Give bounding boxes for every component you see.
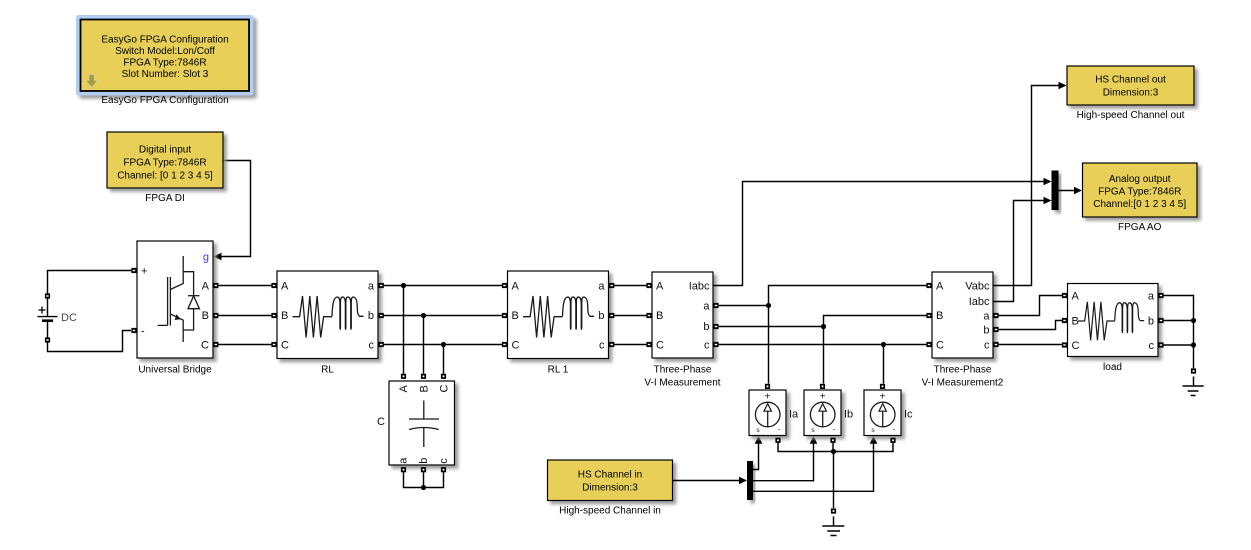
svg-text:A: A	[1072, 291, 1080, 303]
node gate arrow	[214, 253, 222, 261]
svg-text:a: a	[1148, 291, 1155, 303]
svg-text:c: c	[984, 340, 990, 352]
wire load c to ground bus	[1164, 344, 1194, 346]
svg-text:a: a	[368, 281, 375, 293]
svg-text:Slot Number: Slot 3: Slot Number: Slot 3	[122, 69, 209, 80]
svg-text:Ib: Ib	[844, 409, 853, 421]
svg-text:DC: DC	[61, 312, 77, 324]
svg-text:a: a	[703, 301, 710, 313]
svg-text:Ic: Ic	[904, 409, 913, 421]
wire meas2 Iabc to mux input2	[993, 201, 1049, 302]
svg-text:Iabc: Iabc	[689, 281, 710, 293]
node junction capacitor neutral	[421, 485, 426, 490]
wire meas1 b output	[719, 326, 824, 328]
svg-text:A: A	[202, 281, 210, 293]
wire phase b drop to Ib	[823, 327, 825, 384]
current source Ib	[804, 384, 853, 443]
wire b drop to capacitor B	[423, 316, 425, 374]
wire FPGA DI output to bridge gate	[216, 161, 251, 257]
demux bar	[747, 461, 753, 500]
svg-text:C: C	[439, 385, 451, 393]
wire load b to ground bus	[1164, 320, 1194, 322]
svg-text:Three-Phase: Three-Phase	[654, 365, 712, 376]
svg-text:a: a	[598, 281, 605, 293]
wire meas1 c to meas2 C	[719, 344, 930, 346]
wire load outputs to ground bus	[1164, 296, 1194, 369]
wire RL1 b to measurement B	[614, 315, 647, 317]
block HS Channel out	[1067, 66, 1194, 121]
block RL 1	[502, 271, 614, 376]
svg-text:B: B	[512, 310, 519, 322]
svg-text:RL: RL	[321, 365, 334, 376]
ground center	[822, 508, 844, 535]
block HS Channel in	[548, 460, 673, 517]
block EasyGo FPGA Configuration (selected)	[76, 15, 254, 106]
wire bridge B to RL B	[218, 315, 274, 317]
node junction phase a	[766, 303, 771, 308]
wire phase b to meas2 B	[824, 316, 930, 327]
svg-text:V-I Measurement: V-I Measurement	[644, 378, 720, 389]
wire RL1 c to measurement C	[614, 344, 647, 346]
svg-text:Vabc: Vabc	[965, 281, 990, 293]
wire a drop to capacitor A	[403, 286, 405, 374]
svg-text:HS Channel in: HS Channel in	[578, 470, 642, 481]
svg-text:FPGA DI: FPGA DI	[145, 193, 184, 204]
current source Ia	[749, 384, 799, 443]
svg-text:Three-Phase: Three-Phase	[934, 365, 992, 376]
svg-text:B: B	[1072, 316, 1079, 328]
svg-text:Switch Model:Lon/Coff: Switch Model:Lon/Coff	[115, 46, 215, 57]
node junction b to capacitor	[421, 313, 426, 318]
svg-text:a: a	[983, 311, 990, 323]
wire DC plus to bridge	[48, 271, 133, 294]
block RL	[271, 271, 383, 376]
node junction c to capacitor	[441, 342, 446, 347]
wire RL a to RL1 A	[384, 285, 505, 287]
svg-text:b: b	[703, 321, 709, 333]
wire HS Channel in to demux	[673, 480, 745, 482]
svg-text:b: b	[983, 325, 989, 337]
svg-text:+: +	[880, 392, 886, 403]
svg-text:A: A	[398, 385, 410, 393]
svg-text:b: b	[368, 310, 374, 322]
svg-text:High-speed Channel out: High-speed Channel out	[1077, 110, 1185, 121]
wire demux out2 to Ib s	[753, 444, 814, 481]
wire phase a drop to Ia	[768, 306, 770, 384]
svg-text:Analog output: Analog output	[1109, 174, 1171, 185]
svg-text:A: A	[656, 281, 664, 293]
svg-text:B: B	[656, 310, 663, 322]
node junction a to capacitor	[401, 283, 406, 288]
block Digital input FPGA DI	[107, 132, 223, 204]
node junction load c	[1191, 342, 1196, 347]
svg-text:C: C	[512, 340, 520, 352]
DC source V1	[38, 293, 77, 342]
svg-text:load: load	[1103, 362, 1122, 373]
wire meas2 a to load A	[999, 296, 1063, 316]
wire DC minus to bridge	[48, 331, 132, 352]
svg-text:RL 1: RL 1	[548, 365, 569, 376]
wire meas2 b to load B	[999, 321, 1063, 330]
current source Ic	[864, 384, 913, 443]
node junction load b	[1191, 318, 1196, 323]
svg-text:C: C	[656, 340, 664, 352]
wire meas2 Vabc to HS Channel out	[993, 86, 1064, 286]
wire bus to ground	[833, 452, 835, 509]
wire RL1 a to measurement A	[614, 285, 647, 287]
wire c drop to capacitor C	[443, 345, 445, 374]
capacitor C block	[377, 374, 454, 473]
block Analog output FPGA AO	[1083, 163, 1198, 233]
svg-text:C: C	[1072, 340, 1080, 352]
wire mux output to FPGA AO	[1058, 190, 1079, 192]
svg-text:FPGA Type:7846R: FPGA Type:7846R	[123, 158, 206, 169]
svg-text:b: b	[1148, 316, 1154, 328]
svg-text:g: g	[203, 252, 209, 264]
svg-text:C: C	[377, 416, 385, 428]
svg-text:A: A	[281, 281, 289, 293]
svg-text:FPGA AO: FPGA AO	[1118, 222, 1162, 233]
node junction minus bus	[831, 449, 836, 454]
svg-text:High-speed Channel in: High-speed Channel in	[559, 506, 661, 517]
node junction phase b	[821, 324, 826, 329]
svg-text:C: C	[281, 340, 289, 352]
svg-text:Channel: [0 1 2 3 4 5]: Channel: [0 1 2 3 4 5]	[117, 171, 213, 182]
block Universal Bridge	[131, 241, 218, 376]
block Three-Phase V-I Measurement2	[922, 272, 1004, 389]
ground right	[1183, 368, 1204, 395]
svg-text:B: B	[419, 385, 431, 392]
transistor IGBT with diode inside bridge	[158, 256, 200, 342]
wire demux out3 to Ic s	[753, 444, 874, 492]
wire RL c to RL1 C	[384, 344, 505, 346]
svg-text:V-I Measurement2: V-I Measurement2	[922, 378, 1004, 389]
wire meas1 Iabc to mux input1	[713, 182, 1049, 286]
svg-text:Iabc: Iabc	[969, 296, 990, 308]
wire bridge A to RL A	[218, 285, 274, 287]
svg-text:-: -	[141, 326, 145, 338]
wire capacitor bottom a b c joined	[404, 472, 444, 487]
svg-text:Channel:[0 1 2 3 4 5]: Channel:[0 1 2 3 4 5]	[1093, 199, 1186, 210]
svg-text:Dimension:3: Dimension:3	[582, 483, 638, 494]
svg-text:A: A	[936, 281, 944, 293]
svg-text:c: c	[369, 340, 375, 352]
svg-text:EasyGo FPGA Configuration: EasyGo FPGA Configuration	[101, 95, 228, 106]
block load	[1062, 284, 1164, 374]
svg-text:c: c	[704, 340, 710, 352]
wire minus bus	[778, 443, 893, 452]
svg-text:A: A	[512, 281, 520, 293]
wire bridge C to RL C	[218, 344, 274, 346]
wire RL b to RL1 B	[384, 315, 505, 317]
svg-text:c: c	[438, 458, 450, 464]
svg-text:HS Channel out: HS Channel out	[1095, 75, 1166, 86]
node junction phase c	[881, 342, 886, 347]
svg-text:+: +	[765, 392, 771, 403]
svg-text:C: C	[201, 340, 209, 352]
wire meas1 a output	[719, 305, 769, 307]
svg-text:Universal Bridge: Universal Bridge	[138, 365, 212, 376]
block Three-Phase V-I Measurement	[644, 272, 720, 389]
svg-text:FPGA Type:7846R: FPGA Type:7846R	[1098, 187, 1181, 198]
svg-text:c: c	[599, 340, 605, 352]
svg-text:+: +	[820, 392, 826, 403]
wire phase a to meas2 A	[769, 286, 930, 306]
svg-text:FPGA Type:7846R: FPGA Type:7846R	[123, 58, 206, 69]
svg-text:b: b	[598, 310, 604, 322]
mux bar	[1052, 171, 1059, 211]
svg-text:Ia: Ia	[789, 409, 799, 421]
svg-text:a: a	[398, 457, 410, 464]
svg-text:+: +	[141, 266, 147, 278]
svg-text:B: B	[281, 310, 288, 322]
wire phase c drop to Ic	[883, 345, 885, 384]
wire meas2 c to load C	[999, 344, 1063, 346]
svg-text:b: b	[418, 458, 430, 464]
svg-text:B: B	[202, 310, 209, 322]
svg-text:Digital input: Digital input	[139, 145, 191, 156]
svg-text:Dimension:3: Dimension:3	[1103, 88, 1159, 99]
svg-text:C: C	[936, 340, 944, 352]
wire demux out1 to Ia s	[753, 444, 759, 470]
svg-text:c: c	[1149, 340, 1155, 352]
svg-text:EasyGo FPGA Configuration: EasyGo FPGA Configuration	[101, 35, 228, 46]
svg-text:B: B	[936, 310, 943, 322]
